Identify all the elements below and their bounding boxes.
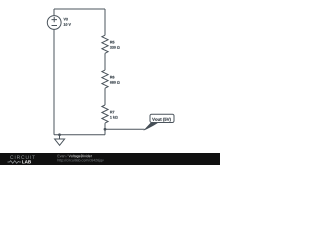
wire R7 bottom lead: [104, 123, 106, 129]
wire source top lead: [53, 9, 55, 16]
wire left vertical: [53, 29, 55, 134]
voltage source V3 circle: [47, 16, 61, 30]
label R7: [110, 111, 114, 113]
flag Vout tail: [143, 123, 158, 131]
footer bar: [0, 153, 220, 165]
resistor R6 zigzag: [102, 70, 108, 88]
footer logo CIRCUIT: [10, 155, 35, 159]
wire right vertical top: [104, 9, 106, 35]
label R6: [110, 76, 114, 79]
footer url line: [58, 159, 104, 162]
footer credit user: [58, 155, 68, 158]
footer logo LAB: [22, 160, 31, 163]
resistor R7 zigzag: [102, 105, 108, 123]
label R5: [110, 41, 114, 44]
footer logo zigzag: [8, 161, 22, 164]
flag Vout text: [152, 118, 171, 122]
wire R6 to R7: [104, 88, 106, 105]
label 680 ohm: [110, 81, 120, 84]
wire top horizontal: [54, 8, 105, 10]
footer credit name: [69, 155, 92, 158]
label V3: [64, 18, 68, 21]
label 1 kohm: [110, 116, 118, 119]
voltage source plus sign: [52, 17, 58, 22]
voltage source minus sign: [52, 25, 58, 27]
ground stub wire: [59, 135, 61, 139]
wire right vertical bottom corner: [104, 129, 106, 134]
wire bottom horizontal: [54, 134, 105, 136]
junction node at ground: [58, 133, 61, 136]
ground symbol triangle: [55, 139, 65, 145]
label 10 V: [64, 23, 71, 26]
wire R5 to R6: [104, 53, 106, 70]
junction node Vout tap: [104, 128, 107, 131]
label 330 ohm: [110, 46, 120, 49]
flag Vout box: [150, 114, 174, 122]
wire Vout tap horizontal: [105, 128, 145, 130]
resistor R5 zigzag: [102, 35, 108, 53]
